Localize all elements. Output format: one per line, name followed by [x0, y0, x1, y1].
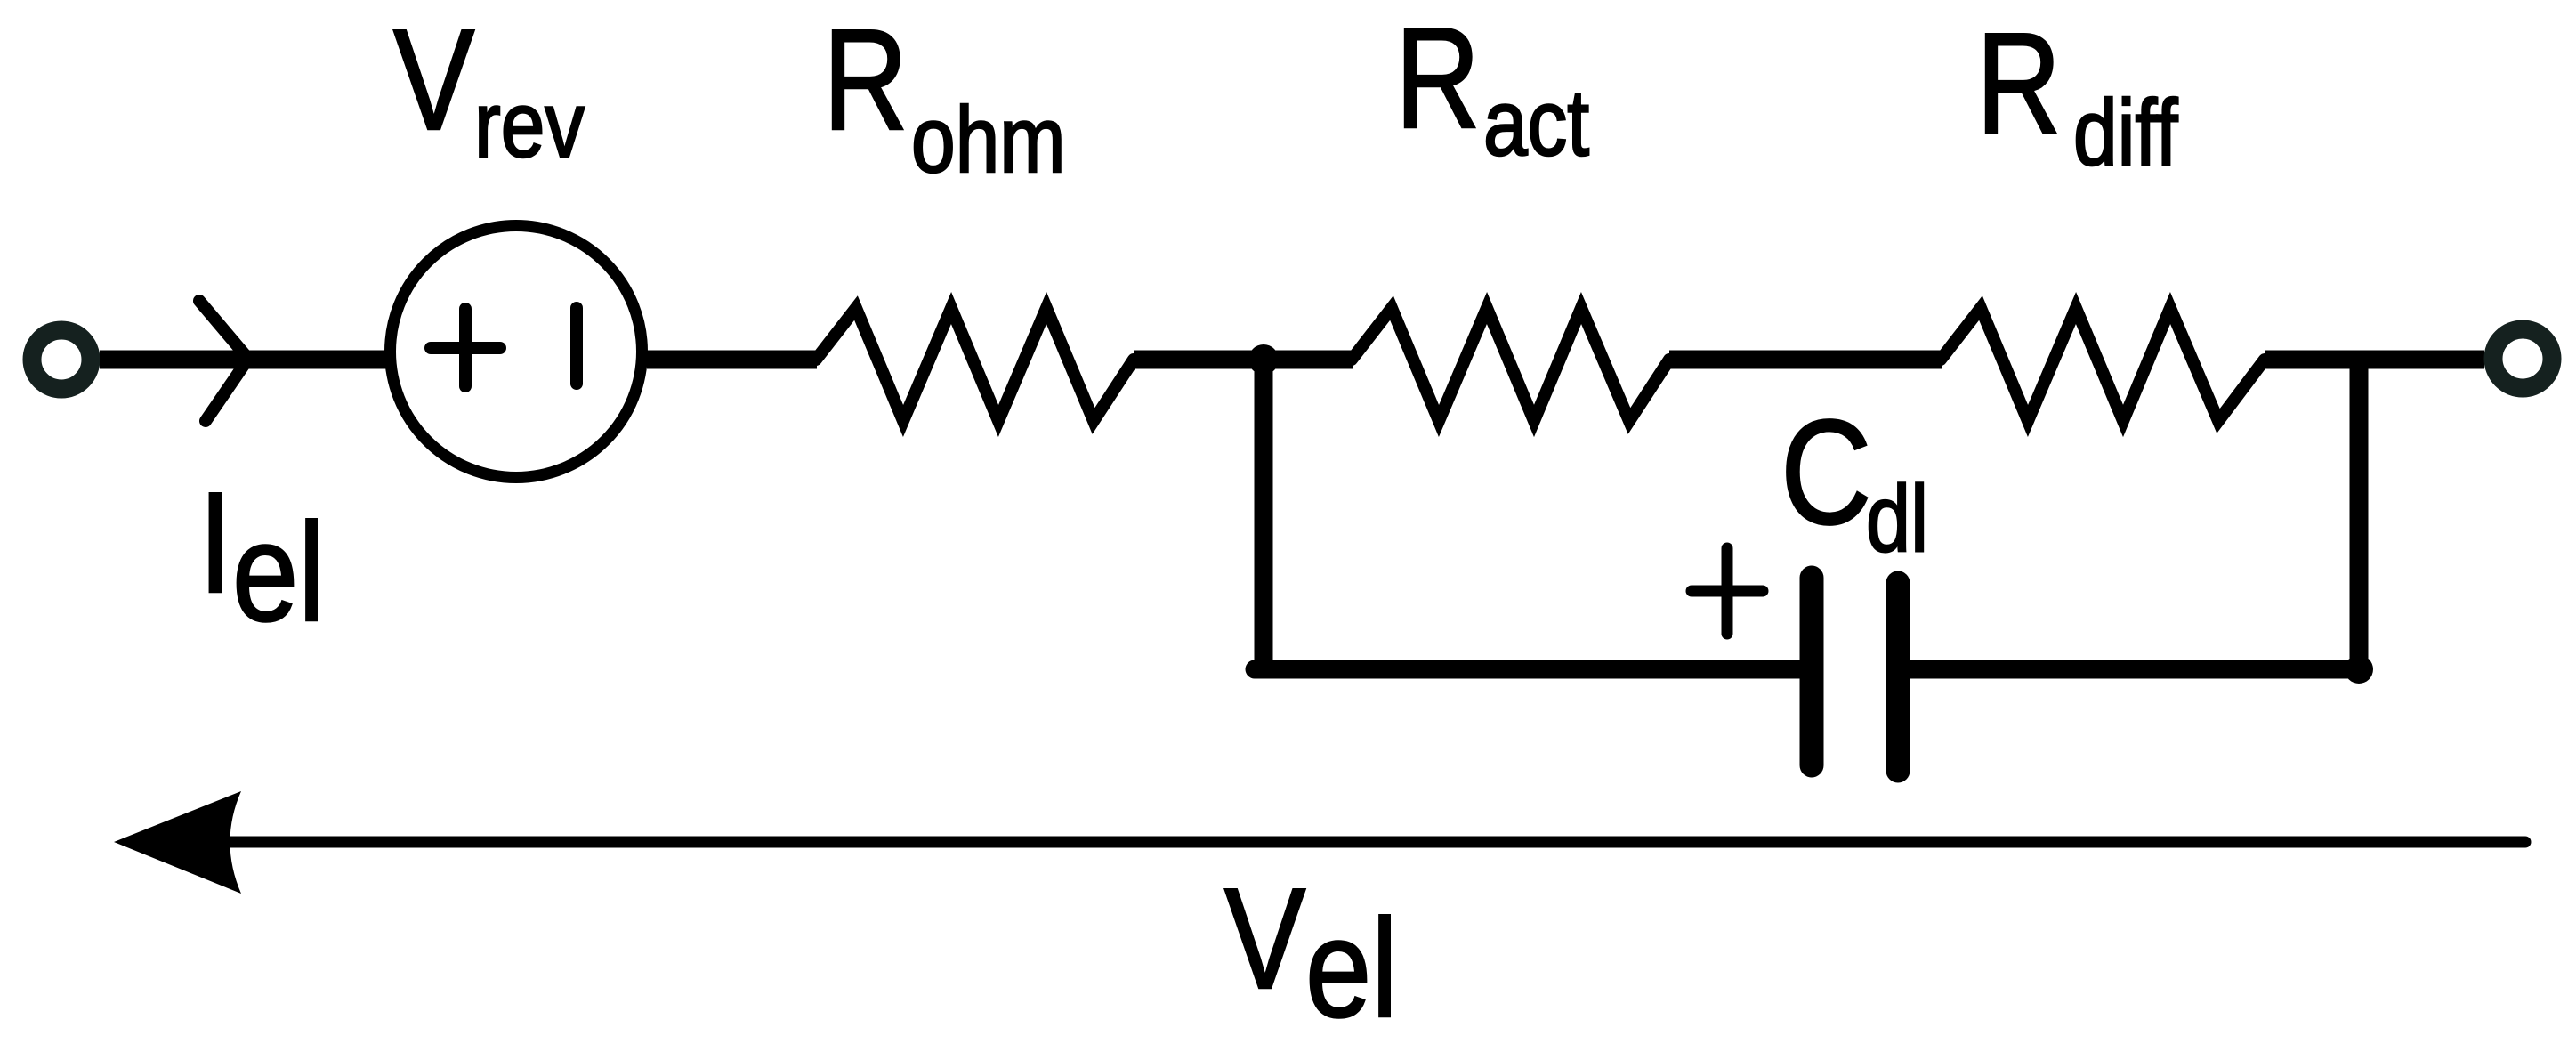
right terminal	[2493, 329, 2552, 388]
svg-text:C: C	[1781, 389, 1872, 554]
capacitor C_dl left plate	[1800, 578, 1824, 765]
svg-text:R: R	[1395, 0, 1480, 158]
right branch vertical wire	[2350, 360, 2369, 669]
svg-text:el: el	[1305, 890, 1398, 1047]
svg-text:ohm: ohm	[911, 87, 1066, 191]
wire left terminal to source	[100, 351, 386, 369]
svg-text:el: el	[232, 494, 325, 651]
current arrow I_el	[199, 301, 248, 421]
resistor R_diff	[1941, 308, 2265, 421]
plus sign in source	[431, 342, 500, 354]
svg-text:act: act	[1483, 70, 1589, 174]
junction dot bottom right	[2345, 655, 2373, 684]
plus polarity at capacitor	[1692, 586, 1763, 597]
svg-text:diff: diff	[2073, 80, 2178, 184]
wire R_ohm to R_act	[1134, 351, 1353, 369]
wire R_diff to right terminal	[2265, 351, 2484, 369]
wire R_act to R_diff	[1669, 351, 1942, 369]
voltage arrow V_el shaft	[227, 837, 2525, 848]
resistor R_ohm	[816, 308, 1134, 421]
voltage source V_rev	[391, 226, 642, 478]
svg-text:R: R	[823, 1, 908, 160]
left branch vertical wire	[1255, 360, 1273, 669]
left terminal	[32, 330, 91, 389]
wire source to R_ohm	[647, 351, 817, 369]
resistor R_act	[1352, 308, 1669, 421]
svg-text:V: V	[393, 0, 474, 159]
bottom wire right segment	[1898, 660, 2359, 679]
node A junction dot	[1248, 344, 1279, 375]
svg-text:I: I	[198, 463, 232, 623]
svg-text:rev: rev	[474, 72, 585, 176]
capacitor C_dl right plate	[1886, 583, 1910, 771]
V_el arrowhead	[114, 791, 241, 894]
svg-text:R: R	[1976, 4, 2061, 164]
minus bar in source	[570, 308, 583, 384]
svg-text:dl: dl	[1866, 465, 1928, 571]
svg-text:V: V	[1224, 859, 1305, 1019]
bottom wire left segment	[1255, 660, 1812, 679]
